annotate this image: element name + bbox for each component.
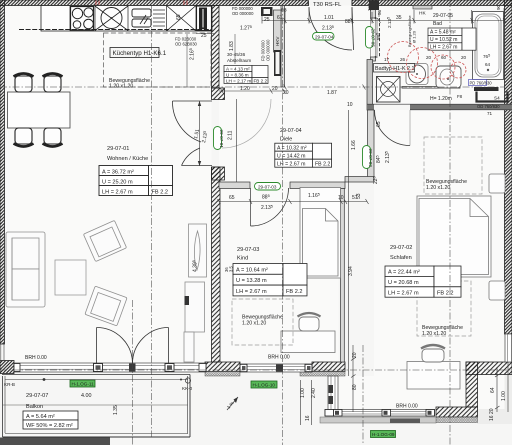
kitchen moving area dashed	[104, 33, 212, 87]
svg-text:Ø 1.20: Ø 1.20	[412, 30, 417, 43]
svg-text:HKV: HKV	[275, 36, 280, 46]
wall kind right	[341, 189, 345, 363]
tall unit X	[167, 6, 197, 32]
label KK0	[182, 378, 193, 391]
dim lines bottom right	[301, 345, 509, 425]
svg-text:Wohnen / Küche: Wohnen / Küche	[107, 156, 148, 162]
entrance door T30 arc	[309, 7, 354, 50]
green tag 29-07-04	[313, 33, 335, 41]
svg-text:71: 71	[487, 111, 493, 116]
bad wc	[436, 66, 461, 88]
axis vertical x282	[282, 5, 284, 445]
svg-text:U = 8.36 m: U = 8.36 m	[226, 72, 249, 77]
window bump west vertical	[328, 376, 338, 412]
dining chairs	[14, 74, 63, 147]
green tag 29-07-03	[255, 183, 281, 191]
svg-text:U = 14.42 m: U = 14.42 m	[277, 154, 305, 160]
bewegung bad rotated	[407, 15, 417, 47]
balcony door right leaf	[133, 328, 169, 364]
dims bad	[375, 4, 501, 116]
balcony slab	[2, 375, 190, 438]
svg-text:A = 5.48 m²: A = 5.48 m²	[430, 30, 456, 36]
svg-text:1.20 x1.20: 1.20 x1.20	[422, 331, 446, 337]
dim line balkon	[5, 378, 188, 381]
svg-text:29-07-01: 29-07-01	[219, 130, 224, 149]
svg-text:A = 22.44 m²: A = 22.44 m²	[388, 270, 420, 276]
window band south living	[1, 344, 206, 372]
svg-text:Balkon: Balkon	[26, 404, 43, 410]
outside ground bottom-right	[477, 374, 512, 424]
washing machine dark	[281, 8, 508, 102]
svg-text:65: 65	[176, 14, 182, 20]
dims right of diele	[347, 102, 391, 199]
wall schlafen left	[368, 110, 375, 177]
svg-text:H-1.OG-10: H-1.OG-10	[253, 383, 276, 388]
svg-text:BRH 0.00: BRH 0.00	[268, 355, 290, 361]
svg-text:29-07-04: 29-07-04	[280, 128, 302, 134]
svg-text:1.00: 1.00	[501, 391, 507, 401]
svg-text:29-07-04: 29-07-04	[315, 34, 334, 39]
schlafen moving area 1	[424, 137, 482, 194]
door bad sliding dashed	[379, 18, 381, 58]
axis horizontal y370	[0, 369, 512, 371]
window kind south	[240, 364, 312, 372]
armchair 2	[85, 286, 127, 326]
wall diele-bad jog	[367, 60, 373, 111]
wall right	[505, 0, 512, 334]
kind moving area dashed	[232, 299, 293, 345]
dim 2.11 vertical	[193, 99, 236, 182]
svg-text:WF 50% = 2.82 m²: WF 50% = 2.82 m²	[26, 423, 73, 429]
axis horizontal y87	[0, 86, 505, 88]
svg-text:10: 10	[338, 195, 344, 201]
svg-text:25: 25	[201, 33, 207, 39]
svg-text:29-07-01: 29-07-01	[107, 146, 129, 152]
svg-text:A = 10.32 m²: A = 10.32 m²	[277, 146, 307, 152]
oven unit with X and circle	[95, 6, 128, 31]
dim abstell bottom	[219, 89, 286, 94]
table diele	[275, 128, 332, 168]
wall pier south kind	[312, 362, 345, 372]
svg-text:65: 65	[376, 121, 382, 127]
wall bad pier top dark	[369, 1, 379, 11]
dim kind top line	[218, 199, 369, 204]
svg-text:BRH 0.00: BRH 0.00	[25, 355, 47, 361]
kuechentyp label box	[110, 48, 167, 58]
nightstand 1	[489, 174, 505, 193]
svg-text:U = 25.20 m: U = 25.20 m	[102, 179, 133, 185]
axis vertical x132	[131, 300, 133, 445]
schlafen desk	[407, 362, 460, 390]
wall bad left lower	[371, 57, 376, 61]
svg-text:Küchentyp H1-K6.1: Küchentyp H1-K6.1	[113, 50, 167, 57]
svg-text:A = 5.64 m²: A = 5.64 m²	[26, 414, 55, 420]
svg-text:1.35: 1.35	[113, 405, 119, 415]
door kind arc	[251, 188, 289, 226]
svg-text:1.83: 1.83	[229, 41, 235, 51]
svg-text:FB 2.2: FB 2.2	[152, 189, 168, 195]
shower X box	[377, 77, 401, 103]
svg-text:LH = 2.67 m: LH = 2.67 m	[236, 289, 267, 295]
green fill tag H-1.OG-10	[251, 381, 277, 388]
nightstand 2	[489, 281, 505, 300]
svg-text:20: 20	[461, 55, 467, 60]
schlafen bed	[417, 196, 491, 277]
svg-text:FB 2.2: FB 2.2	[254, 78, 268, 83]
red section marks top wall	[96, 1, 187, 6]
wall pier south living	[205, 362, 240, 372]
svg-text:20: 20	[283, 90, 289, 96]
svg-text:Bad: Bad	[433, 21, 442, 27]
svg-text:16: 16	[305, 415, 311, 421]
svg-text:Diele: Diele	[280, 137, 292, 143]
dims bottom right	[81, 352, 507, 421]
svg-text:H-1.OG-09: H-1.OG-09	[372, 432, 395, 437]
kind desk	[281, 331, 335, 353]
table schlafen	[385, 245, 461, 297]
svg-text:1.00: 1.00	[300, 388, 306, 398]
kitchen counter outline	[19, 6, 235, 88]
svg-text:1.87: 1.87	[327, 90, 337, 96]
half wall bad	[402, 87, 460, 89]
dim labels top	[240, 15, 402, 32]
svg-text:LH = 2.67 m: LH = 2.67 m	[430, 44, 457, 50]
balcony lower dark band	[0, 438, 110, 445]
wall left balcony pier	[0, 361, 14, 374]
table bad	[428, 13, 476, 50]
balcony door left leaf	[97, 328, 133, 364]
svg-text:2.40: 2.40	[311, 388, 317, 398]
svg-text:29-07-03: 29-07-03	[258, 184, 277, 189]
slope arrow balcony	[226, 397, 238, 410]
wall abstellraum right	[281, 6, 285, 88]
svg-text:FB 2.2: FB 2.2	[437, 290, 453, 296]
door abstell arc gray	[222, 99, 271, 148]
wall step diele-schlafen	[345, 177, 374, 183]
green tag 29-07-01	[214, 127, 224, 150]
wall bad south dark band	[367, 104, 512, 110]
door living double leaf	[172, 101, 212, 166]
window east schlafen	[505, 334, 512, 362]
wall top	[0, 0, 512, 6]
svg-text:FB 2.2: FB 2.2	[286, 289, 302, 295]
door schlafen arc	[375, 110, 411, 146]
bathtub	[473, 12, 504, 80]
svg-text:35: 35	[396, 15, 402, 21]
axis vertical x450	[449, 0, 451, 445]
svg-text:25: 25	[264, 17, 270, 23]
svg-text:U = 10.52 m: U = 10.52 m	[430, 37, 457, 43]
svg-text:65: 65	[229, 195, 235, 201]
svg-text:56: 56	[377, 9, 382, 15]
green tag 29-07-05	[366, 27, 376, 49]
blue text FD hkv vertical	[261, 39, 271, 61]
schlafen chair	[421, 345, 445, 362]
dark niche block entry	[261, 7, 273, 16]
svg-text:LH = 2.67 m: LH = 2.67 m	[277, 162, 305, 168]
svg-text:60: 60	[441, 55, 447, 60]
svg-text:OD 000000: OD 000000	[266, 39, 271, 61]
badtyp label	[374, 64, 415, 73]
svg-text:BRH 0.00: BRH 0.00	[396, 404, 418, 410]
table wohnen	[99, 146, 173, 196]
svg-text:20: 20	[426, 55, 432, 60]
svg-text:S4: S4	[494, 96, 500, 101]
svg-text:F8: F8	[457, 94, 463, 99]
blue box PD bath	[469, 80, 493, 86]
blue text FD kitchen	[175, 37, 198, 47]
svg-text:PD 760/830: PD 760/830	[470, 80, 493, 85]
wall stub door top	[212, 88, 225, 100]
svg-text:R8: R8	[281, 8, 287, 13]
svg-text:1.20 x1.20: 1.20 x1.20	[426, 185, 450, 191]
svg-text:3.5: 3.5	[229, 266, 234, 272]
svg-text:1.66: 1.66	[351, 140, 357, 150]
green fill tag H-1.OG-11	[70, 380, 95, 387]
sideboard with plant	[189, 224, 207, 277]
svg-text:H-1.OG-11: H-1.OG-11	[72, 382, 95, 387]
svg-text:2.11: 2.11	[228, 130, 234, 140]
axis vertical x151	[151, 6, 153, 438]
coffee table	[55, 260, 86, 295]
wall bad left upper	[371, 6, 376, 19]
wall corridor upper	[212, 6, 220, 89]
svg-text:61: 61	[277, 15, 283, 21]
entrance jambs	[309, 1, 353, 7]
svg-text:53: 53	[356, 193, 362, 199]
HK radiator	[413, 6, 432, 17]
svg-text:A = 36.72 m²: A = 36.72 m²	[102, 169, 134, 175]
svg-text:LH = 2.67 m: LH = 2.67 m	[388, 290, 419, 296]
svg-text:A = 4.13 m²: A = 4.13 m²	[226, 66, 250, 71]
kind bed	[300, 188, 341, 279]
svg-text:30-45/36: 30-45/36	[227, 52, 246, 57]
wall kind top	[219, 182, 345, 189]
svg-text:Abstellraum: Abstellraum	[227, 58, 251, 63]
svg-text:T30 RS-FL: T30 RS-FL	[313, 2, 342, 8]
svg-text:U = 20.68 m: U = 20.68 m	[388, 280, 419, 286]
kind chair	[298, 313, 321, 331]
svg-text:64: 64	[490, 387, 496, 393]
dim line top y20	[262, 8, 506, 24]
green fill tag H-1.OG-09	[371, 431, 396, 438]
svg-text:29-07-07: 29-07-07	[26, 393, 48, 399]
wall corner southeast L	[436, 362, 512, 423]
schlafen moving area 2	[417, 281, 471, 336]
svg-text:29-07-03: 29-07-03	[237, 247, 259, 253]
svg-text:10: 10	[347, 102, 353, 108]
sink unit	[132, 9, 165, 27]
table abstellraum	[224, 52, 268, 84]
svg-text:Kind: Kind	[237, 256, 248, 262]
bad sink	[406, 64, 428, 85]
wall corridor lower	[212, 167, 221, 362]
svg-text:17: 17	[384, 57, 390, 62]
dim rotated kitchen side	[176, 14, 235, 60]
svg-text:90: 90	[496, 4, 501, 10]
stove 4 burners	[71, 7, 94, 31]
door living dim line	[198, 101, 201, 166]
fridge dark	[197, 6, 212, 31]
svg-text:A = 10.64 m²: A = 10.64 m²	[236, 267, 268, 273]
window schlafen south	[320, 410, 436, 424]
sofa	[6, 232, 45, 307]
svg-text:HK: HK	[419, 11, 426, 17]
svg-text:H= 1.20m: H= 1.20m	[430, 96, 452, 102]
svg-text:1.20 x1.20: 1.20 x1.20	[109, 84, 133, 90]
svg-text:64: 64	[485, 62, 491, 67]
wall left	[0, 0, 5, 344]
svg-text:OD 000000: OD 000000	[232, 11, 254, 16]
HKV niche wall	[274, 10, 282, 76]
svg-text:16 20: 16 20	[489, 408, 495, 421]
svg-text:U = 13.28 m: U = 13.28 m	[236, 278, 267, 284]
dining table	[8, 92, 71, 128]
armchair 1	[83, 220, 126, 261]
svg-text:KK-0: KK-0	[182, 386, 193, 391]
svg-text:FB 2.2: FB 2.2	[315, 162, 330, 168]
svg-text:KR-B: KR-B	[4, 382, 15, 387]
svg-text:29-07-05: 29-07-05	[371, 29, 376, 48]
wall stub door bottom	[212, 167, 225, 180]
svg-text:4.00: 4.00	[81, 393, 92, 399]
svg-text:29-07-02: 29-07-02	[390, 245, 412, 251]
red circles bad	[388, 42, 467, 80]
table balkon	[23, 393, 78, 429]
svg-text:26: 26	[400, 57, 406, 62]
blue text FD top entry	[232, 6, 254, 16]
svg-text:LH = 2.17 m: LH = 2.17 m	[226, 78, 251, 83]
svg-text:1.20 x1.20: 1.20 x1.20	[242, 321, 266, 327]
svg-text:OD 62B030: OD 62B030	[175, 42, 198, 47]
axis vertical x363	[362, 345, 364, 445]
svg-text:1.01: 1.01	[324, 15, 334, 21]
table kind	[233, 247, 307, 296]
svg-text:3.94: 3.94	[348, 266, 354, 276]
svg-text:29-07-02: 29-07-02	[368, 149, 373, 168]
svg-text:Schlafen: Schlafen	[390, 255, 412, 261]
svg-text:LH = 2.67 m: LH = 2.67 m	[102, 189, 133, 195]
green tag 29-07-02	[363, 146, 373, 169]
sideboard 2	[184, 282, 205, 362]
bewegungsflaeche kitchen text	[109, 78, 150, 90]
svg-text:OD 760/830: OD 760/830	[477, 104, 500, 109]
